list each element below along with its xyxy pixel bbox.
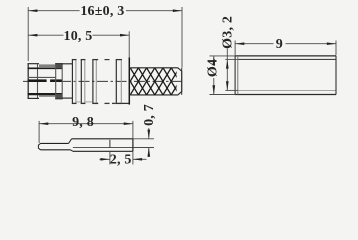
arrow up of Ø4 dim	[212, 56, 215, 65]
arrow down of Ø4 dim	[212, 85, 215, 94]
head shell gray top band	[39, 64, 56, 67]
right view left outer edge	[234, 56, 236, 95]
arrow left of 9 dim	[235, 42, 244, 45]
dimension 16±0,3 line left segment	[28, 10, 79, 12]
crimp ferrule knurl	[114, 68, 196, 95]
neck top edge	[62, 63, 72, 65]
head back ring top edge	[55, 63, 63, 65]
head groove top line	[28, 76, 56, 78]
right view cable top edge	[235, 55, 336, 57]
body bottom link dash before rib 4	[112, 102, 116, 104]
neck bottom edge	[62, 97, 72, 99]
pin thin rod bottom edge	[41, 149, 71, 151]
body rib 4	[116, 60, 122, 104]
dimension 0,7 extension bottom (inner line extended)	[133, 147, 154, 149]
head center slot band right part	[50, 79, 62, 82]
arrow down of 0,7 dim	[147, 130, 150, 139]
svg-text:9, 8: 9, 8	[72, 115, 94, 130]
body bottom line rib4 to washer	[122, 102, 129, 104]
dimension 9,8 extension right	[132, 121, 134, 139]
Ø3,2 extension bottom stub	[225, 89, 238, 91]
pin thin rod top edge	[41, 142, 69, 144]
pin sleeve chamfer bottom	[70, 150, 73, 152]
dimension Ø3,2 vertical line	[226, 49, 228, 91]
pin sleeve bottom edge	[73, 150, 133, 152]
centerline main view	[23, 80, 184, 82]
dimension 16±0,3 extension line left	[27, 7, 29, 61]
pin internal tick at 2,5	[109, 140, 111, 148]
dimension Ø4 extension bottom	[210, 94, 236, 96]
arrow left of 10,5 dim	[28, 34, 37, 37]
arrow left of 16 dim	[28, 9, 37, 12]
dimension Ø4 line upper stub	[213, 56, 215, 59]
svg-text:Ø4: Ø4	[206, 59, 221, 77]
pin sleeve inner line	[73, 147, 133, 149]
body rib 2	[81, 60, 86, 104]
head back ring top block	[56, 64, 63, 69]
svg-text:16±0, 3: 16±0, 3	[80, 4, 124, 19]
dimension 10,5 line right segment	[93, 34, 130, 36]
body right washer edge	[128, 58, 130, 105]
dimension 2,5 extension right below pin	[132, 151, 134, 164]
dimension 9 line left segment	[235, 43, 273, 45]
dimension 2,5 line right stub	[133, 158, 147, 160]
dimension 10,5 line left segment	[28, 34, 63, 36]
dimension 0,7 vertical line lower	[148, 148, 150, 158]
connector head snout second vertical	[37, 64, 39, 99]
dimension 16±0,3 line right segment	[126, 10, 182, 12]
knurl crosshatch	[114, 68, 196, 95]
dimension 9 extension left	[234, 41, 236, 56]
arrow right of 10,5 dim	[120, 34, 129, 37]
dimension 9,8 extension left	[38, 121, 40, 143]
dimension 9 extension right	[335, 41, 337, 56]
pin sleeve top edge	[72, 138, 133, 140]
pin view: thin rod tip chamfer	[38, 143, 40, 149]
right view bottom edge	[235, 94, 336, 96]
svg-text:Ø3, 2: Ø3, 2	[220, 16, 235, 49]
dimension 10,5 extension line right	[128, 31, 130, 57]
head back ring bottom block	[56, 94, 63, 99]
arrow down top of Ø3,2 dim	[226, 59, 229, 68]
arrow right of 9 dim	[327, 42, 336, 45]
right view left inner edge	[237, 56, 239, 95]
arrow right-pointing of 2,5 dim	[100, 158, 109, 161]
svg-text:9: 9	[276, 37, 283, 52]
head snout top edge	[28, 63, 39, 65]
svg-text:10, 5: 10, 5	[64, 29, 93, 44]
ferrule outline	[130, 68, 182, 95]
right view right edge	[335, 56, 337, 95]
head back ring right edge	[61, 63, 63, 99]
body cylinder faint bottom segments	[77, 101, 81, 103]
head center slot band left part	[28, 79, 47, 82]
arrow right of 16 dim	[173, 9, 182, 12]
svg-text:0, 7: 0, 7	[142, 104, 157, 126]
arrow right of 9,8 dim	[124, 122, 133, 125]
head inner bottom line	[28, 93, 63, 95]
body hidden dash top segment	[105, 59, 110, 61]
ferrule right edge	[181, 68, 183, 95]
slot white gap	[47, 79, 51, 83]
head inner top line	[28, 67, 63, 69]
head back ring bottom edge	[55, 98, 63, 100]
body rib 3	[92, 60, 98, 104]
arrow left of 9,8 dim	[39, 122, 48, 125]
pin sleeve chamfer top	[69, 139, 72, 144]
head shell gray bottom line	[39, 95, 56, 97]
dimension 2,5 extension left below pin	[109, 151, 111, 164]
dimension 9 line right segment	[286, 43, 337, 45]
Ø3,2 extension top stub	[225, 58, 238, 60]
head back ring left edge	[55, 63, 57, 99]
dimension Ø4 extension top	[210, 55, 236, 57]
right view inner top line	[238, 58, 336, 60]
body rib 1	[72, 60, 77, 104]
arrow up of 0,7 dim	[147, 148, 150, 157]
dimension 16±0,3 extension line right	[181, 7, 183, 68]
connector head front face	[27, 63, 29, 99]
arrow left-pointing of 2,5 dim	[133, 158, 142, 161]
dimension Ø4 line lower stub	[213, 78, 215, 95]
dimension 2,5 line left stub	[100, 158, 110, 160]
svg-text:2, 5: 2, 5	[110, 152, 132, 167]
pin right face	[132, 139, 134, 152]
head snout bottom edge	[28, 97, 39, 99]
dimension 0,7 extension top (pin top edge extended)	[133, 138, 154, 140]
dimension 9,8 line	[39, 123, 133, 125]
right view inner bottom line	[238, 89, 336, 91]
dimension 0,7 vertical line upper	[148, 128, 150, 139]
arrow down bottom of Ø3,2 dim	[226, 81, 229, 90]
body hidden dash bottom segment	[105, 102, 110, 104]
